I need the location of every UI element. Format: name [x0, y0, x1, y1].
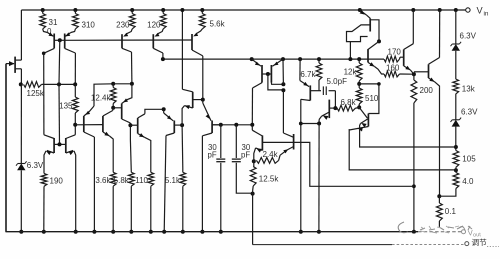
resistor 5.1k — [180, 172, 186, 186]
transistor Q21 (pnp) — [113, 107, 122, 109]
svg-text:120: 120 — [147, 20, 161, 29]
svg-text:pF: pF — [241, 151, 250, 160]
wire top-left drop — [20, 10, 22, 60]
wire emitter curve Q3 — [71, 29, 76, 33]
svg-text:310: 310 — [82, 21, 96, 30]
svg-text:调节: 调节 — [472, 238, 488, 247]
transistor Q2 (pnp left of pair) — [53, 34, 55, 49]
svg-text:13k: 13k — [462, 85, 476, 94]
resistor 3.6k — [112, 141, 114, 172]
svg-text:6.3V: 6.3V — [460, 32, 477, 41]
node Q4col/12.4k — [130, 82, 134, 86]
resistor 310 (left) — [41, 8, 45, 12]
svg-text:0.1: 0.1 — [445, 207, 457, 216]
node 12.5k top — [252, 159, 256, 163]
svg-text:190: 190 — [50, 177, 64, 186]
svg-text:pF: pF — [208, 151, 217, 160]
wire C2 bottom to adjust node — [236, 163, 252, 193]
wire 4.0 bottom to output column — [439, 189, 456, 197]
transistor Q4 (pnp) — [127, 29, 133, 34]
node pair bases — [58, 142, 62, 146]
wire F emitter node down — [181, 125, 184, 168]
zener D1 6.3V — [452, 44, 460, 51]
svg-text:170: 170 — [388, 48, 402, 57]
transistor Q22 (npn) — [130, 124, 137, 126]
wire D collector up-right — [145, 109, 164, 114]
node Q9 emitter — [412, 72, 416, 76]
wire N collector down — [300, 99, 302, 231]
node P emitter junction — [317, 122, 321, 126]
wire zener column left — [20, 84, 22, 163]
wire H collector to rail — [201, 136, 203, 232]
resistor 110 — [150, 143, 152, 172]
node base rail junction — [58, 38, 62, 42]
svg-text:2.4k: 2.4k — [263, 150, 279, 159]
resistor 6.7k — [318, 59, 320, 63]
svg-text:6.3V: 6.3V — [461, 108, 478, 117]
wire caps node — [212, 124, 252, 126]
wire band-gap base column — [58, 40, 61, 84]
wire Q6 collector down — [202, 56, 204, 100]
transistor Q27 (pnp pair right) — [65, 138, 67, 153]
transistor Q19 (pnp) — [75, 124, 103, 126]
resistor 12.4k — [112, 84, 114, 88]
wire zener column — [454, 8, 458, 12]
wire Q7 base to rail2 — [349, 42, 351, 60]
terminal adjust — [465, 242, 469, 246]
wire feedback column — [282, 59, 284, 84]
resistor 120 — [161, 8, 165, 12]
wire K collector down — [251, 88, 253, 125]
node 6.7k top — [317, 57, 321, 61]
node cap1 — [219, 123, 223, 127]
wire emitter1 down — [359, 124, 362, 138]
resistor 13k — [453, 79, 459, 94]
resistor 12.5k — [250, 167, 256, 187]
wire Q10 collector to top rail — [438, 8, 442, 12]
transistor Q13 (pnp input left) — [252, 59, 261, 66]
svg-text:5.8k: 5.8k — [114, 176, 130, 185]
svg-text:4.0: 4.0 — [462, 177, 474, 186]
capacitor C1 30pF — [220, 125, 222, 158]
svg-text:160: 160 — [386, 63, 400, 72]
node 12.4k bottom — [111, 106, 115, 110]
node F base — [201, 98, 205, 102]
resistor 310 (right) — [73, 8, 77, 12]
wire Q8 emitter to 160 — [375, 67, 385, 75]
resistor 170 — [384, 56, 400, 62]
svg-text:135: 135 — [59, 102, 73, 111]
transistor Q17 (pnp) — [299, 59, 301, 80]
resistor 230 — [130, 8, 134, 12]
terminal Vout (faded) — [462, 230, 466, 234]
wire output rail — [6, 231, 419, 233]
wire top supply rail — [21, 9, 465, 11]
svg-text:110: 110 — [135, 176, 148, 185]
watermark curl — [398, 222, 408, 233]
resistor 4.0 — [453, 173, 459, 189]
transistor Q7 (folded multi-collector pnp) — [358, 8, 362, 12]
transistor Q3 (pnp right of pair) — [64, 34, 66, 49]
wire output rail faded — [418, 231, 461, 233]
wire M collector — [271, 83, 283, 85]
wire Q3 collector down — [74, 53, 76, 84]
wire bracket to Q12 collector — [359, 84, 379, 114]
wire 2.4k to J emitter — [279, 155, 281, 160]
wire Q5 collector to rail2 — [162, 53, 164, 59]
node collector Q2 — [42, 52, 46, 56]
svg-text:5.0pF: 5.0pF — [327, 77, 348, 86]
wire Q2 collector down — [43, 53, 45, 135]
node 510 bottom — [357, 105, 361, 109]
node K/I collectors — [250, 123, 254, 127]
resistor 135 — [74, 84, 76, 97]
transistor Q15 (npn) — [251, 125, 253, 130]
transistor Q25 (pnp) — [202, 100, 204, 103]
wire mid rail — [163, 58, 384, 60]
wire base rail — [65, 39, 192, 41]
jfet Q1 — [14, 57, 16, 73]
wire sense emitter 1 — [360, 137, 456, 147]
svg-text:31: 31 — [49, 18, 58, 27]
node sense top — [454, 145, 458, 149]
resistor 200 — [413, 74, 415, 80]
transistor Q8 (npn) — [368, 41, 379, 49]
terminal Vin — [466, 8, 470, 12]
resistor 190 — [41, 173, 47, 186]
resistor 510 — [356, 88, 362, 104]
svg-text:125k: 125k — [27, 89, 45, 98]
resistor 160 — [384, 71, 400, 77]
svg-text:V: V — [477, 6, 484, 16]
transistor Q16 (pnp) — [293, 134, 295, 150]
wire C collector down — [129, 123, 131, 140]
wire F emitter column — [181, 10, 183, 89]
transistor Q14 (pnp input right) — [272, 59, 283, 66]
wire adjust dotted tail — [487, 246, 499, 248]
wire 200 down to output rail — [413, 103, 415, 232]
node A base — [73, 123, 77, 127]
wire G collector to rail — [164, 136, 166, 232]
wire A emitter top — [94, 84, 113, 106]
node D base — [128, 123, 132, 127]
wire Q19 collector to rail — [93, 137, 95, 232]
wire emitter2 down — [348, 128, 350, 131]
node K emitter — [250, 57, 254, 61]
wire source down — [20, 69, 22, 85]
transistor Q9 (npn) — [403, 50, 405, 66]
svg-text:12.5k: 12.5k — [259, 175, 280, 184]
transistor Q12 (npn, dual emitter) — [359, 107, 367, 118]
wire base tie — [268, 74, 284, 90]
wire output emitter column — [439, 87, 441, 196]
transistor Q26 (pnp pair left) — [53, 138, 55, 153]
resistor 6.8k — [337, 105, 356, 111]
node 12k/510 — [357, 82, 361, 86]
svg-text:5.6k: 5.6k — [210, 20, 226, 29]
svg-text:6.3V: 6.3V — [27, 161, 44, 170]
resistor 0.1 — [438, 196, 440, 203]
wire emitter curve Q2 — [43, 29, 48, 33]
wire adjust line — [253, 244, 392, 246]
wire J base ext — [294, 142, 414, 186]
watermark scribbles — [420, 226, 463, 230]
wire P emitter to rail — [318, 124, 320, 232]
transistor Q24 (npn) — [192, 92, 194, 108]
svg-text:6.7k: 6.7k — [300, 70, 316, 79]
wire cap to P base — [334, 91, 336, 108]
node cap2 — [234, 123, 238, 127]
node M emitter — [281, 57, 285, 61]
node Q7 collector — [377, 39, 381, 43]
node N emitter head — [298, 57, 302, 61]
svg-text:6.8k: 6.8k — [341, 98, 357, 107]
resistor 12k — [357, 57, 361, 61]
transistor Q6 (pnp) — [196, 29, 202, 34]
node G emitter feed — [162, 107, 166, 111]
wire B collector to node — [112, 108, 115, 111]
wire Q9 collector to top rail — [411, 8, 415, 12]
svg-text:12k: 12k — [344, 68, 358, 77]
transistor Q10 (npn output) — [414, 71, 429, 73]
capacitor C2 30pF — [235, 125, 237, 158]
svg-text:5.1k: 5.1k — [165, 176, 181, 185]
resistor 2.4k — [256, 158, 278, 164]
svg-text:105: 105 — [462, 155, 476, 164]
resistor 105 — [453, 151, 459, 168]
resistor 5.6k — [200, 8, 204, 12]
capacitor C3 5.0pF — [319, 90, 321, 92]
svg-text:200: 200 — [420, 86, 434, 95]
wire adjust drop — [252, 191, 254, 245]
wire Q4 collector down — [131, 52, 133, 84]
node G base — [180, 123, 184, 127]
wire N col to P emitter — [301, 123, 319, 125]
node input bases — [266, 72, 270, 76]
resistor 5.8k — [129, 140, 132, 172]
svg-text:230: 230 — [116, 20, 130, 29]
resistor 125k — [19, 82, 23, 86]
svg-text:in: in — [484, 11, 489, 18]
transistor Q20 (npn) — [102, 116, 104, 132]
zener D2 6.3V — [452, 120, 460, 127]
transistor Q23 (pnp) — [163, 109, 165, 113]
wire sense emitter 2 — [349, 129, 456, 170]
wire 170 to Q9 base — [399, 57, 402, 59]
wire gate down left edge — [5, 64, 7, 232]
wire C1 bottom to rail — [220, 163, 222, 232]
svg-text:12.4k: 12.4k — [91, 94, 112, 103]
transistor Q18 (npn) — [328, 100, 330, 119]
node 105/4.0 — [454, 168, 458, 172]
wire 12.5k to adjust — [252, 186, 255, 191]
zener D3 6.3V — [17, 164, 25, 171]
transistor Q5 (pnp) — [158, 29, 164, 34]
svg-text:3.6k: 3.6k — [95, 176, 111, 185]
svg-text:510: 510 — [365, 94, 379, 103]
node adjust tie — [251, 192, 255, 196]
